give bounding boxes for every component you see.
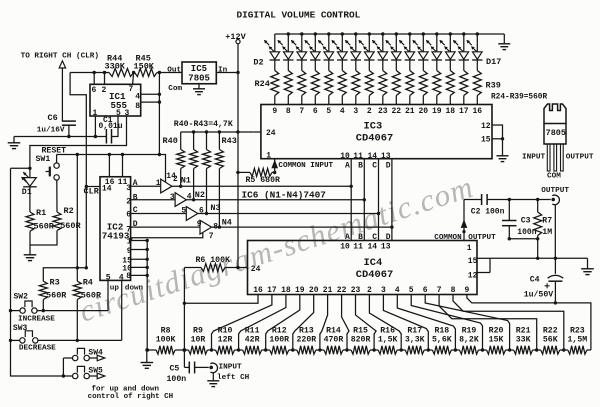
wire line A input (131, 185, 161, 187)
label R16 (380, 326, 395, 335)
wire ground line (14, 136, 106, 138)
pin 15 label IC4 (468, 257, 478, 266)
resistor R1 (26, 212, 34, 231)
diode D2 LED (264, 40, 280, 60)
wire line A output (172, 185, 351, 187)
switch SW2 pushbutton (20, 301, 37, 313)
pin 4 label IC3 (340, 107, 345, 116)
svg-text:C5: C5 (170, 365, 180, 374)
svg-text:4: 4 (340, 107, 345, 116)
junction rail R4 (76, 153, 79, 156)
wire 555 pin6 stub (93, 73, 95, 85)
svg-text:R24-R39=560R: R24-R39=560R (491, 94, 547, 102)
svg-text:1: 1 (467, 244, 472, 253)
label R4 (83, 277, 93, 287)
svg-text:560R: 560R (81, 290, 102, 300)
pin 14 label IC4 top (368, 242, 378, 251)
wire input jack ground (212, 372, 214, 380)
junction R5 +12V (236, 171, 239, 174)
junction SW4 branch (62, 374, 65, 377)
svg-text:3: 3 (170, 193, 175, 202)
label R5 680R (246, 176, 280, 185)
svg-text:CLR: CLR (84, 186, 100, 196)
svg-text:24: 24 (266, 129, 276, 138)
wire output ground line (490, 257, 588, 259)
svg-text:D2: D2 (253, 58, 263, 68)
watermark (75, 169, 478, 329)
resistor R42 (203, 132, 211, 214)
svg-text:330K: 330K (105, 61, 126, 71)
junction bus D (390, 225, 393, 228)
arrow common output (461, 221, 466, 234)
junction rail IC2 pin11 (121, 153, 124, 156)
svg-text:B: B (358, 161, 363, 170)
wire bus C vertical (378, 159, 380, 241)
label R16 value (378, 335, 398, 344)
wire +12V vertical (237, 44, 239, 268)
pin 10 label IC4 top (340, 242, 350, 251)
junction bus B (363, 198, 366, 201)
svg-text:17: 17 (267, 286, 277, 295)
wire IC4 pin19 route (266, 295, 300, 351)
wire into IC3 pin24 (254, 131, 261, 133)
label SW3 (13, 324, 28, 333)
junction R3 bottom (42, 309, 45, 312)
label OUTPUT (468, 234, 496, 242)
svg-text:R12: R12 (272, 326, 287, 335)
svg-text:R8: R8 (161, 326, 171, 335)
wire R6 left vertical (183, 268, 185, 368)
svg-text:5: 5 (409, 286, 414, 295)
junction R44-R45 pin7 (132, 71, 135, 74)
pin 19 label IC4 bottom (295, 286, 305, 295)
label COMMON (434, 234, 462, 242)
resistor R45 (135, 69, 157, 77)
label D2 (253, 58, 263, 68)
svg-text:10: 10 (122, 264, 132, 273)
pin 8 label (213, 223, 218, 232)
junction pin6 (93, 71, 96, 74)
svg-text:9: 9 (464, 286, 469, 295)
junction ladder J8 (372, 348, 375, 351)
svg-text:4: 4 (119, 274, 124, 283)
wire 555 pin4 stub (141, 93, 161, 96)
junction ladder J14 (535, 348, 538, 351)
pin 6 label (92, 86, 97, 95)
caption control of right CH (88, 393, 174, 401)
label C2 100n (471, 208, 505, 217)
label R44 value (105, 61, 126, 71)
junction ladder J9 (400, 348, 403, 351)
svg-text:1: 1 (156, 179, 161, 188)
junction R4 bottom (76, 339, 79, 342)
resistor R10 (212, 346, 239, 354)
junction R43 out (218, 225, 221, 228)
svg-text:6: 6 (126, 211, 131, 220)
label R10 (218, 326, 233, 335)
wire LED column D15 top (449, 32, 452, 52)
wire IC4 pin4 route (397, 295, 455, 351)
wire CLR arrow to C6 top (61, 68, 63, 121)
pin 2 label (173, 175, 178, 184)
svg-text:5: 5 (106, 274, 111, 283)
wire LED column D13 top (422, 32, 425, 52)
wire IC2 pin9 stub (131, 248, 149, 251)
svg-text:13: 13 (381, 152, 391, 161)
resistor R19 (455, 346, 482, 354)
svg-text:R22: R22 (543, 326, 558, 335)
svg-text:14: 14 (368, 242, 378, 251)
svg-text:10: 10 (340, 152, 350, 161)
svg-text:R6 100K: R6 100K (196, 256, 230, 265)
junction SW2 tap (9, 309, 12, 312)
diode D13 LED (413, 40, 429, 60)
svg-text:5: 5 (326, 107, 331, 116)
svg-text:6: 6 (313, 107, 318, 116)
label IC2 (107, 221, 124, 232)
svg-text:COM: COM (547, 173, 561, 181)
resistor R17 (401, 346, 428, 354)
label R21 (516, 326, 531, 335)
label SW1 (36, 155, 51, 164)
pin 15 label (481, 136, 491, 145)
arrow SW5 (97, 373, 105, 379)
junction bus C (377, 212, 380, 215)
wire bus D vertical (391, 159, 393, 241)
label C1 (103, 116, 113, 125)
pin 20 label IC3 (418, 107, 428, 116)
svg-text:6: 6 (423, 286, 428, 295)
diode D7 LED (332, 40, 348, 60)
label N2 (195, 190, 205, 200)
label IC4 (364, 257, 383, 269)
buffer N1 (161, 179, 172, 193)
svg-text:R20: R20 (489, 326, 504, 335)
resistor R35 (419, 60, 427, 105)
junction CLR at IC2 pin14 (85, 185, 88, 188)
title text (237, 9, 361, 20)
junction bus A (350, 185, 353, 188)
node A label above IC4 (345, 233, 350, 242)
wire IC2 pin1 stub (131, 239, 149, 242)
pin 9 label IC3 (272, 107, 277, 116)
wire SW3 left (11, 339, 20, 341)
pin 1 label IC3 (266, 152, 271, 161)
label 555 (111, 100, 128, 111)
label DECREASE (19, 345, 56, 353)
label down (125, 285, 144, 293)
svg-text:INPUT: INPUT (219, 364, 242, 372)
svg-text:16: 16 (472, 107, 482, 116)
svg-text:3: 3 (353, 107, 358, 116)
resistor R29 (338, 60, 346, 105)
svg-text:11: 11 (353, 152, 363, 161)
wire D1 cathode to R1 (29, 187, 31, 212)
svg-text:C3: C3 (521, 217, 531, 226)
pin C label (133, 206, 138, 215)
wire C3 R7 bottoms (508, 237, 540, 240)
ground symbol IC3 (497, 156, 509, 162)
svg-text:OUTPUT: OUTPUT (566, 154, 594, 162)
svg-text:R18: R18 (434, 326, 449, 335)
svg-text:R10: R10 (218, 326, 233, 335)
wire IC4 pin22 route (342, 295, 349, 351)
wire pullup bus / IC3 pin24 (181, 131, 254, 133)
junction pin2 (103, 71, 106, 74)
node C label below IC3 (372, 161, 377, 170)
label SW2 (14, 292, 29, 301)
junction CLR at R3R4 rail (85, 266, 88, 269)
wire IC4 pin16 route (183, 295, 258, 305)
label D17 (486, 57, 501, 67)
label C6 value (37, 126, 65, 134)
wire IC4 pin7 route (439, 295, 537, 351)
resistor R4 (73, 281, 81, 299)
label CLR (84, 186, 100, 196)
capacitor C5 (189, 362, 194, 374)
svg-text:R40-R43=4,7K: R40-R43=4,7K (174, 120, 233, 129)
buffer N3 (186, 207, 198, 221)
pin 7 label (126, 225, 131, 234)
node D label above IC4 (386, 233, 391, 242)
junction R5 pin1 (273, 171, 276, 174)
label R6 100K (196, 256, 230, 265)
multiplexer IC4 CD4067 box (248, 241, 478, 295)
wire R45 to IC5 Out (157, 72, 182, 74)
label INCREASE (18, 315, 55, 323)
wire R3 top (43, 268, 86, 281)
svg-text:R5 680R: R5 680R (246, 176, 280, 185)
junction ladder J2 (210, 348, 213, 351)
junction SW3 tap (9, 339, 12, 342)
svg-text:left CH: left CH (217, 374, 250, 382)
ground symbol input (207, 381, 219, 387)
svg-text:7: 7 (437, 286, 442, 295)
svg-text:D17: D17 (486, 57, 501, 67)
junction C3 top (508, 198, 511, 201)
svg-text:N4: N4 (222, 217, 232, 227)
label left CH (217, 374, 250, 382)
resistor R32 (379, 60, 387, 105)
arrow SW4 (97, 355, 105, 361)
label COM package (547, 173, 561, 181)
connector input jack (209, 363, 217, 373)
wire +5V rail (57, 154, 160, 156)
svg-text:7: 7 (129, 85, 134, 94)
pin 14 label (102, 185, 112, 194)
regulator IC5 box (182, 62, 216, 84)
junction 555 pin1 gnd (94, 135, 97, 138)
junction C4 top (554, 257, 557, 260)
pin 4 label (187, 193, 192, 202)
pin 4 label (119, 274, 124, 283)
resistor R44 (109, 69, 134, 77)
svg-text:3: 3 (381, 286, 386, 295)
pin 16 label IC3 (472, 107, 482, 116)
resistor R39 (473, 60, 481, 105)
label In (218, 66, 228, 74)
resistor R24 (271, 60, 279, 105)
wire LED bus to ground (503, 34, 505, 44)
wire R3 bottom (42, 300, 44, 311)
label N3 (210, 203, 220, 213)
node B label below IC3 (358, 161, 363, 170)
ground symbol IC5 (193, 89, 205, 95)
svg-text:R11: R11 (245, 326, 260, 335)
label INPUT package (522, 154, 545, 162)
wire IC2 pin14 CLR stub (86, 186, 100, 188)
diode D4 LED (291, 40, 307, 60)
resistor R3 (39, 281, 47, 299)
label C3 value (517, 228, 536, 237)
switch SW1 pushbutton (46, 163, 60, 180)
pin 9 label (197, 220, 202, 229)
svg-text:7805: 7805 (188, 73, 210, 83)
pin 3 label (126, 184, 131, 193)
wire IC4 pin23 route (356, 295, 377, 351)
svg-text:R15: R15 (353, 326, 368, 335)
wire SW2 left (11, 310, 20, 312)
svg-text:20: 20 (309, 286, 319, 295)
resistor R2 (53, 212, 61, 231)
wire LED column D11 top (395, 32, 398, 52)
wire LED anode bus (275, 33, 505, 35)
label Out (167, 66, 181, 74)
capacitor C3 (502, 200, 517, 239)
wire line D output (212, 226, 392, 228)
wire IC4 pin5 route (411, 295, 482, 351)
pin 10 label (122, 264, 132, 273)
svg-text:C2 100n: C2 100n (471, 208, 505, 217)
svg-text:100n: 100n (167, 375, 187, 384)
pin 16 label (105, 178, 115, 187)
wire SW5 right (89, 375, 97, 377)
pin 8 label (126, 272, 131, 281)
svg-text:56K: 56K (543, 335, 558, 344)
wire IC5 Com ground (198, 84, 200, 89)
svg-text:3,3K: 3,3K (405, 335, 425, 344)
wire 555 pin3 output (30, 116, 127, 168)
pin 24 label IC4 (251, 265, 261, 274)
label D1 (22, 188, 32, 197)
svg-text:1,5K: 1,5K (378, 335, 398, 344)
buffer N2 (175, 193, 186, 207)
pin 17 label IC4 bottom (267, 286, 277, 295)
svg-text:2: 2 (102, 86, 107, 95)
pin 2 label IC3 (367, 107, 372, 116)
pin 20 label IC4 bottom (309, 286, 319, 295)
svg-text:13: 13 (381, 242, 391, 251)
wire R1 R2 common (30, 231, 57, 245)
pin 6 label (199, 206, 204, 215)
svg-text:1,5M: 1,5M (568, 335, 588, 344)
wire IC3 pins 12 15 tie (492, 125, 504, 156)
junction R4 +5V (76, 266, 79, 269)
label R1 (36, 208, 46, 218)
capacitor C2 (482, 194, 488, 205)
wire C5 left stub (184, 366, 189, 368)
ground symbol left (8, 137, 21, 149)
pin 8 label IC4 bottom (451, 286, 456, 295)
svg-text:560R: 560R (60, 221, 81, 231)
label R15 value (351, 335, 371, 344)
wire bus A vertical (350, 159, 352, 241)
wire IC2 pin5 up (107, 280, 109, 310)
svg-text:2: 2 (367, 286, 372, 295)
junction ladder J6 (318, 348, 321, 351)
svg-text:100R: 100R (269, 335, 289, 344)
wire IC2 pin11 to rail (122, 155, 124, 177)
resistor R30 (352, 60, 360, 105)
label R12 value (269, 335, 289, 344)
label R45 value (134, 61, 155, 71)
pin 7 label (209, 232, 214, 241)
wire LED column D6 top (327, 32, 330, 52)
label R24 (255, 79, 270, 89)
svg-text:IC4: IC4 (364, 257, 383, 269)
ground symbol R1R2 (24, 255, 37, 261)
op-amp IC1 555 box (90, 84, 141, 116)
label R4 value (81, 290, 102, 300)
wire N4 pin7 ground return (132, 233, 203, 241)
resistor R22 (537, 346, 564, 354)
svg-text:control of right CH: control of right CH (88, 393, 174, 401)
pin 24 label IC3 (266, 129, 276, 138)
wire SW2 right to IC2 up pin (37, 310, 108, 312)
svg-text:A: A (345, 161, 350, 170)
wire C5 to input jack (195, 366, 209, 368)
svg-text:17: 17 (459, 107, 469, 116)
svg-text:R9: R9 (193, 326, 203, 335)
wire SW4 left (63, 357, 72, 359)
buffer N4 (200, 220, 212, 234)
node C label above IC4 (372, 233, 377, 242)
pin 11 label (118, 178, 128, 187)
label R7 value (542, 228, 552, 237)
label R19 value (459, 335, 479, 344)
resistor R43 (215, 132, 223, 227)
svg-text:R2: R2 (64, 206, 74, 216)
resistor R8 (147, 346, 185, 354)
label R19 (462, 326, 477, 335)
pin 12 label IC4 (468, 271, 478, 280)
resistor R15 (347, 346, 374, 354)
wire SW1 bottom to R2 (56, 180, 58, 212)
svg-text:12: 12 (468, 271, 478, 280)
svg-text:10R: 10R (191, 335, 206, 344)
wire LED column D12 top (408, 32, 411, 52)
svg-text:15: 15 (468, 257, 478, 266)
diode D9 LED (359, 40, 375, 60)
pin 7 label (129, 85, 134, 94)
pin 6 label (126, 211, 131, 220)
pin 21 label IC4 bottom (323, 286, 333, 295)
label R9 value (191, 335, 206, 344)
svg-text:DIGITAL VOLUME CONTROL: DIGITAL VOLUME CONTROL (237, 9, 361, 20)
svg-text:R7: R7 (542, 217, 552, 226)
wire +5V rail jog to N1 pin14 (159, 155, 165, 183)
wire IC4 pin6 route (425, 295, 509, 351)
label R3 value (46, 290, 67, 300)
pin A label (133, 179, 138, 188)
pin 22 label IC4 bottom (337, 286, 347, 295)
wire line C output (198, 213, 379, 215)
svg-text:OUTPUT: OUTPUT (541, 187, 569, 195)
label RESET (42, 147, 67, 156)
svg-text:12R: 12R (218, 335, 233, 344)
pin 5 label IC4 bottom (409, 286, 414, 295)
label C5 value (167, 375, 187, 384)
